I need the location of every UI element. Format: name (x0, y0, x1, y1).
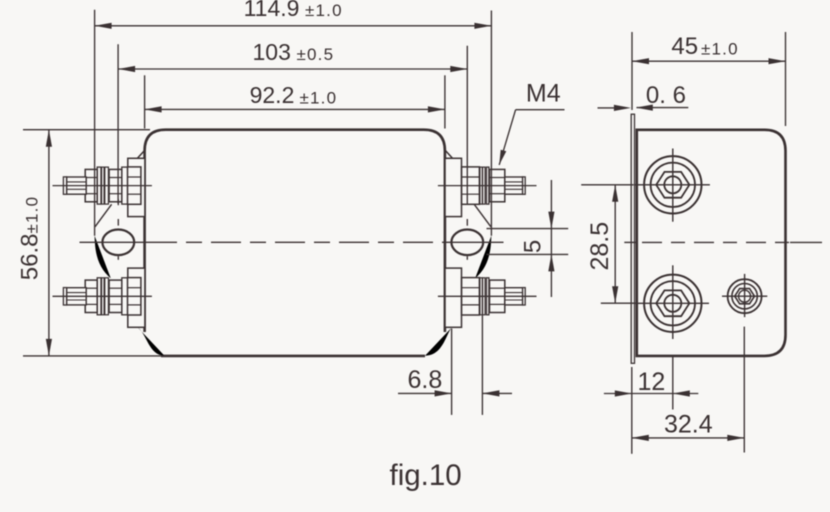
svg-text:28.5: 28.5 (586, 222, 614, 271)
dim 0.6 label (646, 82, 686, 109)
dim 5 label (520, 240, 547, 253)
side upper terminal inner circle (664, 176, 681, 193)
left mounting bracket lower block (128, 268, 145, 327)
filter body (front view) (145, 130, 445, 356)
lower-left terminal stud nut3 (128, 278, 141, 315)
svg-text:32.4: 32.4 (664, 410, 713, 438)
dim 12 left extension line (631, 367, 633, 454)
upper-left terminal centerline (53, 185, 152, 187)
dim 28.5 bottom extension line (601, 302, 636, 304)
upper-left terminal nut1 (85, 169, 97, 201)
left bracket bottom foot curve (138, 327, 165, 355)
side view flange plate 0.6mm (631, 114, 634, 363)
upper-left terminal washer2 (122, 167, 128, 204)
lower-right terminal spring washer (480, 278, 485, 315)
lower-right terminal nut1 (490, 280, 505, 312)
upper-right terminal centerline (438, 185, 537, 187)
lower-left terminal nut2 (109, 280, 122, 312)
side upper terminal circle2 (651, 163, 695, 207)
lower-left terminal nut1 (85, 280, 97, 312)
svg-text:±0.5: ±0.5 (297, 45, 335, 64)
dim 114.9 left extension line (94, 10, 96, 236)
dim 32.4 right extension line (743, 327, 745, 453)
earth stud inner circle (739, 290, 751, 302)
side view horizontal centerline (624, 241, 822, 243)
upper-left terminal stud nut3 (128, 167, 141, 204)
dim 32.4 label (664, 410, 713, 438)
dim 103 right extension line (466, 46, 468, 204)
right slot vertical center dashes (466, 219, 468, 260)
side upper terminal (side view) outer circle (644, 156, 701, 213)
right mounting bracket upper block (445, 158, 462, 216)
dim 12 dimension line (604, 390, 698, 396)
dim 28.5 top extension line (581, 184, 633, 186)
earth stud hex (735, 289, 755, 304)
dim 56.8 dimension line (46, 130, 52, 356)
dim 6.8 left extension line (451, 329, 453, 415)
lower-left terminal washer1 (97, 278, 101, 315)
upper-left terminal nut2 (109, 169, 122, 201)
right bracket edge S-curve (475, 236, 491, 279)
dim 6.8 label (408, 366, 443, 394)
dim 28.5 dimension line (612, 185, 618, 303)
dim 103 dimension line (118, 66, 467, 72)
svg-text:M4: M4 (526, 79, 561, 107)
upper-left terminal washer1 (97, 167, 101, 204)
side lower terminal (side view) outer circle (644, 275, 701, 332)
dim 5 bottom extension line (487, 253, 569, 255)
right bracket bottom foot curve (425, 327, 452, 355)
dim 114.9 label (244, 0, 343, 21)
dim 6.8 right extension line (481, 315, 483, 415)
svg-text:56.8±1.0: 56.8±1.0 (17, 196, 44, 280)
right mounting slot (451, 230, 483, 256)
lower-left terminal threaded bolt (63, 288, 86, 305)
upper-right terminal stud nut3 (462, 167, 480, 204)
earth stud outer circle (728, 279, 762, 313)
dim 32.4 dimension line (632, 435, 745, 441)
right bracket mid fold diagonal (474, 204, 491, 227)
lower-left terminal washer2 (122, 278, 128, 315)
M4 label (526, 79, 561, 107)
svg-text:fig.10: fig.10 (390, 459, 462, 492)
svg-text:5: 5 (520, 240, 547, 253)
svg-text:±1.0: ±1.0 (701, 40, 739, 59)
side lower terminal circle2 (651, 281, 695, 325)
dim 45 label (671, 33, 738, 60)
svg-text:103: 103 (253, 39, 291, 65)
left mounting bracket upper block (128, 158, 145, 216)
dim 6.8 dimension line (398, 390, 512, 396)
side lower terminal hex nut (656, 290, 689, 316)
dim 0.6 right arrow with underline (636, 105, 689, 111)
left slot vertical center dashes (117, 199, 119, 260)
side upper terminal crosshair (634, 149, 710, 222)
dim 45 dimension line (632, 58, 786, 64)
dim 5 dimension line (548, 180, 554, 297)
dim 56.8 bottom extension line (23, 355, 421, 357)
earth stud circle2 (732, 284, 757, 309)
lower-right terminal threaded bolt (505, 288, 525, 305)
lower-left terminal centerline (53, 295, 152, 297)
upper-left terminal threaded bolt (63, 177, 86, 194)
svg-text:±1.0: ±1.0 (305, 1, 343, 20)
lower-right terminal washer1 (486, 278, 489, 315)
left bracket mid fold diagonal (95, 204, 112, 227)
dim 45 left extension line (631, 32, 633, 110)
earth stud crosshair (722, 274, 767, 317)
svg-text:92.2: 92.2 (250, 82, 295, 108)
left bracket top fold line (137, 151, 144, 159)
dim 103 label (253, 39, 335, 65)
side lower terminal inner circle (664, 295, 681, 312)
dim 103 left extension line (117, 44, 119, 204)
lower-left terminal spring washer (102, 278, 109, 315)
upper-right terminal spring washer (480, 167, 485, 204)
dim 12 label (638, 368, 666, 396)
svg-text:6.8: 6.8 (408, 366, 443, 394)
lower-right terminal stud nut3 (462, 278, 480, 315)
dim 5 top extension line (487, 228, 569, 230)
dim 45 right extension line (785, 32, 787, 126)
right bracket top fold line (446, 151, 453, 159)
dim 28.5 label (586, 222, 614, 271)
upper-left terminal spring washer (102, 167, 109, 204)
front view horizontal centerline (80, 241, 504, 243)
dim 92.2 left extension line (144, 75, 146, 128)
dim 56.8 label (17, 196, 44, 280)
svg-text:12: 12 (638, 368, 666, 396)
dim 92.2 right extension line (444, 75, 446, 128)
M4 leader line (499, 110, 564, 165)
dim 92.2 label (250, 82, 338, 108)
svg-text:0. 6: 0. 6 (646, 82, 686, 109)
side lower terminal crosshair (636, 265, 709, 339)
dim 0.6 left arrow (598, 105, 631, 111)
dim 92.2 dimension line (145, 106, 445, 112)
svg-text:114.9: 114.9 (244, 0, 300, 21)
upper-right terminal washer1 (486, 167, 489, 204)
filter body (side view) (637, 130, 786, 356)
dim 56.8 top extension line (23, 129, 150, 131)
upper-right terminal threaded bolt (505, 177, 525, 194)
svg-text:±1.0: ±1.0 (300, 88, 338, 107)
dim 114.9 right extension line (490, 11, 492, 236)
dim 12 right extension line (672, 356, 674, 410)
left bracket edge S-curve (95, 236, 111, 279)
figure caption (390, 459, 462, 492)
upper-right terminal nut1 (490, 169, 505, 201)
left mounting slot (102, 230, 134, 256)
side upper terminal hex nut (656, 172, 689, 198)
right mounting bracket lower block (445, 268, 462, 327)
svg-text:45: 45 (671, 33, 698, 60)
dim 114.9 dimension line (95, 23, 492, 29)
lower-right terminal centerline (438, 295, 537, 297)
